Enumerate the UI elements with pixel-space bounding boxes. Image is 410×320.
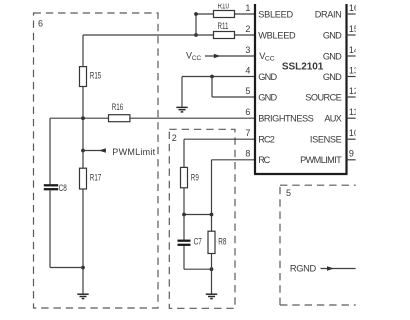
pin stub 15	[347, 34, 356, 36]
svg-text:R17: R17	[90, 172, 101, 183]
svg-text:C8: C8	[59, 183, 68, 193]
pin stub 9	[347, 159, 356, 161]
svg-text:CC: CC	[192, 55, 202, 62]
pin stub 16	[347, 13, 356, 15]
svg-text:WBLEED: WBLEED	[258, 30, 296, 40]
svg-text:7: 7	[245, 128, 250, 138]
resistor R8	[208, 231, 215, 253]
crop mask top (clips R10 label like source)	[210, 0, 240, 4]
svg-text:3: 3	[245, 45, 250, 55]
svg-text:GND: GND	[258, 72, 277, 82]
resistor R15	[80, 67, 87, 87]
svg-text:R9: R9	[191, 172, 199, 183]
svg-text:6: 6	[38, 19, 43, 29]
wire C8 top drop	[49, 118, 51, 184]
capacitor C7	[183, 215, 185, 240]
svg-text:RC: RC	[258, 155, 270, 165]
svg-text:PWMLIMIT: PWMLIMIT	[300, 155, 342, 165]
svg-text:CC: CC	[265, 55, 275, 62]
wire C8 bottom to junction	[50, 190, 83, 267]
wire pin3 VCC	[205, 55, 255, 57]
svg-text:GND: GND	[323, 30, 342, 40]
svg-text:8: 8	[245, 149, 250, 159]
svg-text:16: 16	[349, 3, 359, 13]
svg-text:2: 2	[172, 133, 177, 143]
wire R9 bottom	[183, 188, 185, 215]
pin stub 12	[347, 96, 356, 98]
ground symbol for pins 4 and 5	[176, 107, 187, 112]
wire R15 top drop	[82, 35, 84, 67]
pin stub 10	[347, 138, 356, 140]
wire pin7 RC2	[184, 139, 255, 167]
svg-text:SOURCE: SOURCE	[305, 92, 342, 102]
svg-text:5: 5	[286, 188, 291, 198]
svg-text:5: 5	[245, 86, 250, 96]
junction dot	[194, 12, 198, 16]
svg-text:14: 14	[349, 45, 359, 55]
svg-text:R16: R16	[112, 102, 124, 113]
resistor R11	[214, 32, 235, 39]
dashed block boundary 2	[169, 129, 235, 308]
junction dot	[194, 33, 198, 37]
junction dot R15 column on brightness wire	[81, 116, 85, 120]
wire R8 bottom to ground	[211, 254, 213, 295]
svg-text:BRIGHTNESS: BRIGHTNESS	[258, 114, 314, 124]
pin stub 11	[347, 117, 356, 119]
wire GND drop to earth	[181, 77, 183, 108]
svg-text:R8: R8	[218, 236, 227, 246]
svg-text:13: 13	[349, 65, 359, 75]
junction dot pin4/pin5	[210, 75, 214, 79]
svg-text:DRAIN: DRAIN	[315, 9, 342, 19]
ground symbol under R17	[77, 294, 88, 298]
wire pin8 RC	[212, 160, 256, 231]
pin stub 13	[347, 76, 356, 78]
resistor R10	[214, 11, 235, 18]
wire pin6 BRIGHTNESS	[50, 117, 255, 119]
svg-text:GND: GND	[323, 51, 342, 61]
dashed block boundary 6	[34, 13, 159, 308]
wire vertical connecting R10/R11	[195, 14, 197, 35]
svg-text:12: 12	[349, 86, 359, 96]
wire pin1 from node to SBLEED	[196, 13, 255, 15]
net label PWMLimit with arrow	[81, 149, 85, 153]
svg-text:1: 1	[245, 3, 250, 13]
svg-text:9: 9	[349, 149, 354, 159]
svg-text:10: 10	[349, 128, 359, 138]
arrowhead on VCC wire	[214, 54, 221, 59]
resistor R16	[109, 115, 130, 122]
wire C7 bottom row	[184, 246, 212, 269]
capacitor C8	[44, 185, 58, 189]
svg-text:ISENSE: ISENSE	[310, 135, 342, 145]
svg-text:R11: R11	[218, 21, 229, 32]
resistor R17	[80, 168, 87, 189]
svg-text:R15: R15	[90, 70, 102, 81]
wire junction row R9/R8	[184, 214, 212, 216]
svg-text:4: 4	[245, 65, 250, 75]
svg-text:PWMLimit: PWMLimit	[112, 147, 155, 157]
wire pin2 from R15 top to WBLEED	[83, 34, 255, 36]
svg-text:GND: GND	[323, 72, 342, 82]
op-amp / IC U1 SSL2101 outline	[254, 4, 348, 174]
svg-text:15: 15	[349, 24, 359, 34]
svg-text:RC2: RC2	[258, 135, 275, 145]
svg-text:AUX: AUX	[324, 114, 341, 124]
wire pin5 GND riser	[212, 77, 255, 98]
svg-text:RGND: RGND	[290, 264, 317, 274]
svg-text:2: 2	[245, 24, 250, 34]
svg-text:11: 11	[349, 107, 358, 117]
ground symbol under R8	[206, 294, 217, 298]
svg-text:C7: C7	[194, 236, 203, 246]
resistor R9	[181, 167, 188, 187]
pin stub 14	[347, 55, 356, 57]
svg-text:SSL2101: SSL2101	[282, 62, 324, 73]
svg-text:SBLEED: SBLEED	[258, 9, 293, 19]
svg-text:GND: GND	[258, 92, 277, 102]
wire R15 bottom to R17 top	[82, 87, 84, 169]
svg-text:6: 6	[245, 107, 250, 117]
dashed block boundary 5	[280, 185, 357, 305]
junction dot C8 bottom join	[81, 266, 85, 270]
wire R17 bottom to ground	[82, 189, 84, 294]
wire pin4 GND	[182, 76, 255, 78]
